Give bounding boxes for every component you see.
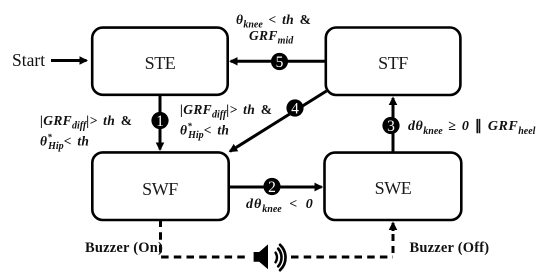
svg-text:3: 3 <box>387 118 395 135</box>
svg-text:1: 1 <box>156 113 164 130</box>
svg-text:4: 4 <box>291 100 299 117</box>
svg-text:5: 5 <box>276 54 284 71</box>
svg-text:2: 2 <box>268 179 276 196</box>
